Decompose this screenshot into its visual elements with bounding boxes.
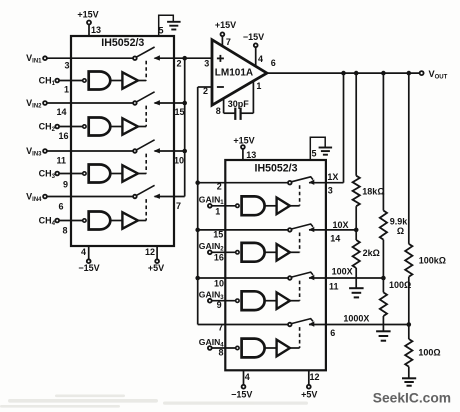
- junction rail 1X: [341, 71, 346, 76]
- svg-text:8: 8: [63, 226, 68, 236]
- dashed control line switch SW1: [299, 185, 301, 206]
- dashed control line switch S4: [145, 199, 147, 220]
- junction rail 18k: [354, 71, 359, 76]
- AND gate G1: [83, 72, 111, 90]
- resistor R2 2k: [353, 230, 380, 288]
- logic input GAIN1 (pin 1): [199, 195, 224, 217]
- ground (R2): [349, 288, 364, 297]
- svg-text:1: 1: [215, 206, 220, 216]
- analog switch S3: [133, 140, 160, 154]
- svg-text:IH5052/3: IH5052/3: [255, 163, 298, 175]
- svg-text:13: 13: [246, 150, 256, 160]
- junction rail 100k: [407, 71, 412, 76]
- wire op-amp - input to feedback bus: [198, 86, 212, 88]
- label pin 3 (+ input): [204, 59, 209, 69]
- svg-text:7: 7: [176, 201, 181, 211]
- buffer B3: [122, 165, 137, 181]
- svg-text:+5V: +5V: [301, 390, 317, 400]
- svg-text:16: 16: [214, 253, 224, 263]
- svg-text:4: 4: [245, 372, 250, 382]
- analog switch SW1: [288, 177, 314, 185]
- svg-text:7: 7: [226, 37, 231, 47]
- wire VIN1 to switch S1: [47, 58, 133, 70]
- junction ch2 bus: [182, 101, 187, 106]
- output terminal VOUT: [420, 69, 448, 81]
- buffer B2: [122, 118, 137, 134]
- wire gate GG1 to buffer: [265, 205, 276, 207]
- AND gate GG4: [236, 339, 265, 358]
- input terminal VIN2 (pin 14): [26, 98, 47, 110]
- power -15V (U1 pin 4): [78, 246, 99, 273]
- wire 1X tap to output rail: [343, 73, 345, 183]
- power -15V (U2 pin 4): [243, 32, 264, 66]
- power -15V (U3 pin 4): [231, 370, 252, 399]
- input terminal VIN1 (pin 3): [26, 53, 47, 65]
- svg-text:5: 5: [158, 26, 163, 36]
- wire GAIN2 to gate GG2: [212, 251, 236, 253]
- logic input GAIN2 (pin 16): [199, 241, 224, 262]
- wire GAIN4 to gate GG4: [212, 347, 236, 349]
- wire switch S1 output (pin 2): [155, 58, 213, 68]
- svg-text:7: 7: [218, 323, 223, 333]
- junction ch3 bus: [182, 149, 187, 154]
- power +15V (U2 pin 7): [215, 20, 236, 47]
- svg-text:9.9k: 9.9k: [390, 216, 409, 226]
- svg-text:1000X: 1000X: [343, 314, 369, 324]
- input terminal VIN3 (pin 11): [26, 146, 47, 158]
- feedback bus (op-amp - input): [197, 87, 199, 325]
- power +5V (U1 pin 12): [145, 246, 164, 273]
- buffer BB4: [277, 340, 290, 357]
- scan noise streaks: [0, 395, 308, 408]
- wire gate GG4 to buffer: [265, 347, 276, 349]
- svg-text:6: 6: [271, 58, 276, 68]
- ground (U3 pin 5): [310, 137, 332, 160]
- bus: switch outputs to op-amp + input: [184, 58, 186, 196]
- svg-text:12: 12: [309, 372, 319, 382]
- wire switch SW2 to tap 10X (pin 14): [309, 220, 356, 244]
- wire gate G1 to buffer: [110, 80, 122, 82]
- wire feedback bus to switch SW4 (pin 7): [198, 323, 288, 333]
- wire gate G4 to buffer: [110, 220, 122, 222]
- wire feedback bus to switch SW3 (pin 10): [198, 278, 288, 289]
- svg-text:SeekIC.com: SeekIC.com: [373, 391, 451, 406]
- analog switch SW4: [288, 319, 314, 327]
- buffer B4: [122, 212, 137, 228]
- AND gate G2: [83, 118, 111, 136]
- svg-text:LM101A: LM101A: [215, 68, 253, 79]
- svg-text:10X: 10X: [333, 220, 349, 230]
- buffer BB1: [277, 198, 290, 215]
- junction feedback 100X row: [195, 276, 200, 281]
- svg-text:2: 2: [177, 59, 182, 69]
- capacitor C1 30pF: [224, 99, 254, 120]
- wire VIN2 to switch S2: [47, 103, 133, 117]
- wire VIN3 to switch S3: [47, 151, 133, 166]
- svg-text:9: 9: [63, 180, 68, 190]
- dashed control line switch S3: [145, 154, 147, 174]
- svg-text:3: 3: [65, 61, 70, 71]
- svg-text:10: 10: [214, 279, 224, 289]
- dashed control line switch SW3: [299, 281, 301, 301]
- svg-text:4: 4: [258, 54, 263, 64]
- analog switch S4: [133, 185, 160, 199]
- svg-text:14: 14: [57, 107, 67, 117]
- svg-text:−15V: −15V: [78, 263, 99, 273]
- svg-text:1: 1: [64, 85, 69, 95]
- buffer BB3: [277, 292, 290, 309]
- svg-text:Ω: Ω: [397, 226, 404, 236]
- power +15V (U3 pin 13): [233, 136, 256, 160]
- svg-text:12: 12: [145, 247, 155, 257]
- wire buffer B4 output: [138, 220, 146, 222]
- junction 10X tap: [354, 228, 359, 233]
- op-amp U2 LM101A: [212, 40, 267, 106]
- svg-text:IH5052/3: IH5052/3: [101, 37, 144, 49]
- wire buffer BB1 output: [290, 205, 300, 207]
- analog switch S2: [133, 92, 160, 106]
- ground (U1 pin 5): [158, 15, 180, 36]
- resistor R5 100k: [405, 73, 446, 324]
- analog switch SW2: [288, 224, 314, 232]
- wire buffer BB4 output: [290, 347, 300, 349]
- input terminal VIN4 (pin 6): [26, 191, 47, 203]
- svg-text:3: 3: [328, 185, 333, 195]
- svg-text:6: 6: [59, 202, 64, 212]
- svg-text:1: 1: [256, 81, 261, 91]
- svg-text:10: 10: [174, 156, 184, 166]
- wire switch SW4 to tap 1000X (pin 6): [309, 314, 409, 338]
- watermark SeekIC.com: [373, 391, 451, 406]
- pin 1 stub: [253, 81, 261, 113]
- pin 8 stub: [216, 98, 224, 116]
- svg-text:16: 16: [59, 131, 69, 141]
- wire GAIN3 to gate GG3: [212, 300, 236, 302]
- buffer B1: [122, 72, 137, 88]
- wire buffer BB3 output: [290, 300, 300, 302]
- svg-text:8: 8: [218, 348, 223, 358]
- svg-text:3: 3: [204, 59, 209, 69]
- logic input CH2 (pin 16): [39, 121, 69, 141]
- IC U1 IH5052/3: [71, 36, 174, 246]
- AND gate G3: [83, 165, 111, 183]
- junction 1000X tap: [407, 322, 412, 327]
- resistor R3 9.9k: [380, 73, 408, 278]
- wire CH4 to gate G4: [59, 220, 83, 222]
- wire gate G3 to buffer: [110, 173, 122, 175]
- svg-text:1X: 1X: [327, 172, 338, 182]
- label pin 2 (- input): [203, 86, 208, 96]
- dashed control line switch SW4: [299, 327, 301, 348]
- svg-text:11: 11: [329, 282, 339, 292]
- logic input GAIN4 (pin 8): [199, 337, 224, 358]
- buffer BB2: [277, 244, 290, 261]
- wire gate GG2 to buffer: [265, 251, 276, 253]
- logic input CH1 (pin 1): [39, 75, 69, 94]
- svg-text:15: 15: [175, 107, 185, 117]
- svg-text:+15V: +15V: [215, 20, 236, 30]
- resistor R6 100 ohm: [405, 325, 440, 379]
- wire buffer B3 output: [138, 173, 146, 175]
- svg-text:5: 5: [311, 149, 316, 159]
- wire switch S4 output (pin 7): [155, 197, 185, 212]
- svg-text:+15V: +15V: [233, 136, 254, 146]
- wire buffer BB2 output: [290, 251, 300, 253]
- svg-text:100Ω: 100Ω: [389, 280, 411, 290]
- svg-text:30pF: 30pF: [228, 99, 250, 109]
- svg-text:15: 15: [213, 229, 223, 239]
- ground (R4): [376, 331, 391, 340]
- svg-text:18kΩ: 18kΩ: [362, 186, 384, 196]
- logic input CH3 (pin 9): [39, 168, 68, 189]
- wire CH2 to gate G2: [59, 126, 83, 128]
- resistor R1 18k: [353, 73, 385, 230]
- wire VIN4 to switch S4: [47, 197, 133, 212]
- wire CH1 to gate G1: [59, 80, 83, 82]
- svg-text:14: 14: [330, 234, 340, 244]
- svg-text:+15V: +15V: [77, 9, 98, 19]
- wire GAIN1 to gate GG1: [212, 205, 236, 207]
- junction ch1 bus: [182, 56, 187, 61]
- dashed control line switch S1: [145, 61, 147, 81]
- svg-text:+5V: +5V: [148, 263, 164, 273]
- logic input GAIN3 (pin 9): [199, 290, 224, 310]
- AND gate G4: [83, 212, 111, 230]
- power +5V (U3 pin 12): [301, 370, 319, 399]
- analog switch S1: [133, 47, 160, 61]
- svg-text:−15V: −15V: [231, 390, 252, 400]
- svg-text:100Ω: 100Ω: [418, 347, 440, 357]
- svg-text:4: 4: [81, 247, 86, 257]
- svg-text:11: 11: [57, 156, 67, 166]
- wire feedback bus to switch SW2 (pin 15): [198, 229, 288, 239]
- svg-text:100X: 100X: [332, 267, 353, 277]
- wire switch S3 output (pin 10): [155, 151, 185, 166]
- wire switch SW1 to tap 1X (pin 3): [309, 172, 344, 196]
- svg-text:100kΩ: 100kΩ: [419, 256, 446, 266]
- wire feedback bus to switch SW1 (pin 2): [198, 182, 288, 192]
- junction feedback 1X row: [195, 180, 200, 185]
- logic input CH4 (pin 8): [39, 215, 68, 235]
- dashed control line switch S2: [145, 106, 147, 127]
- analog switch SW3: [288, 272, 314, 280]
- dashed control line switch SW2: [299, 233, 301, 253]
- svg-text:13: 13: [91, 25, 101, 35]
- wire switch S2 output (pin 15): [155, 103, 185, 117]
- wire op-amp output (pin 6): [267, 58, 420, 73]
- svg-text:−15V: −15V: [243, 32, 264, 42]
- wire gate GG3 to buffer: [265, 300, 276, 302]
- AND gate GG2: [236, 243, 265, 262]
- junction rail 9.9k: [381, 71, 386, 76]
- junction feedback 10X row: [195, 228, 200, 233]
- svg-text:6: 6: [330, 328, 335, 338]
- svg-text:2kΩ: 2kΩ: [363, 248, 380, 258]
- IC U3 IH5052/3: [225, 160, 326, 370]
- wire buffer B2 output: [138, 126, 146, 128]
- AND gate GG1: [236, 196, 265, 215]
- ground (R6): [402, 378, 416, 385]
- junction 100X tap: [381, 276, 386, 281]
- power +15V (U1 pin 13): [77, 9, 101, 36]
- resistor R4 100 ohm: [380, 278, 411, 331]
- wire CH3 to gate G3: [59, 173, 83, 175]
- wire switch SW3 to tap 100X (pin 11): [309, 267, 383, 292]
- wire buffer B1 output: [138, 80, 146, 82]
- wire gate G2 to buffer: [110, 126, 122, 128]
- svg-text:8: 8: [216, 106, 221, 116]
- svg-text:2: 2: [217, 182, 222, 192]
- AND gate GG3: [236, 291, 265, 310]
